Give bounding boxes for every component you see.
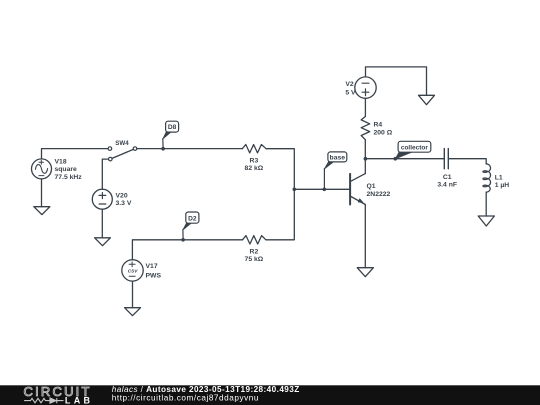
svg-text:3.3 V: 3.3 V	[116, 200, 132, 207]
wire switch lower throw to V20	[102, 159, 108, 189]
voltage source V2	[355, 77, 376, 98]
svg-text:5 V: 5 V	[345, 90, 356, 97]
svg-text:1 µH: 1 µH	[495, 182, 510, 189]
svg-text:V17: V17	[146, 263, 158, 270]
svg-text:D8: D8	[168, 124, 177, 131]
wire L1 bottom	[485, 192, 487, 216]
svg-text:square: square	[55, 166, 78, 173]
node collector flag junction	[394, 157, 398, 161]
wire Q1 collector up to R4	[364, 140, 366, 174]
wire C1 to L1	[449, 159, 486, 164]
node collector branch	[364, 157, 368, 161]
svg-text:collector: collector	[401, 144, 429, 151]
svg-text:3.4 nF: 3.4 nF	[437, 182, 457, 189]
wire V17 bottom	[132, 281, 134, 308]
node base branch	[293, 188, 297, 192]
transistor Q1	[350, 174, 365, 205]
wire collector to C1	[365, 158, 443, 160]
ground below V17	[125, 308, 141, 316]
svg-text:V18: V18	[55, 158, 67, 165]
wire V18 bottom	[41, 179, 43, 207]
voltage source V20	[92, 189, 112, 209]
ground below V18	[34, 207, 50, 215]
svg-text:LAB: LAB	[65, 395, 93, 405]
svg-text:200 Ω: 200 Ω	[374, 130, 393, 137]
svg-text:R2: R2	[250, 249, 259, 256]
svg-text:82 kΩ: 82 kΩ	[245, 165, 264, 172]
svg-text:L1: L1	[495, 175, 503, 182]
wire V2 bottom to R4	[364, 98, 366, 116]
resistor R2	[243, 236, 266, 244]
logo resistor-diode squiggle	[24, 398, 63, 403]
flag D2	[183, 212, 199, 239]
svg-text:PWS: PWS	[146, 272, 162, 279]
flag D8	[163, 121, 179, 147]
svg-text:77.5 kHz: 77.5 kHz	[55, 174, 83, 181]
wire R3 right / right vertical / R2 right	[266, 149, 294, 240]
node D8 junction	[161, 147, 165, 151]
svg-text:CSV: CSV	[128, 268, 139, 273]
svg-text:75 kΩ: 75 kΩ	[245, 256, 264, 263]
svg-text:V2: V2	[345, 81, 354, 88]
svg-text:R3: R3	[250, 158, 259, 165]
wire Q1 emitter down	[364, 205, 366, 268]
wire R2 left to V17	[132, 240, 242, 260]
node base flag junction	[323, 188, 327, 192]
switch SW4	[108, 147, 137, 161]
svg-text:base: base	[330, 154, 346, 161]
ground below L1	[478, 216, 494, 226]
svg-text:SW4: SW4	[115, 140, 129, 147]
svg-text:http://circuitlab.com/caj87dda: http://circuitlab.com/caj87ddapyvnu	[112, 393, 259, 402]
voltage source V18	[32, 159, 52, 179]
footer bar	[0, 385, 540, 405]
resistor R4	[361, 116, 370, 139]
capacitor C1	[444, 149, 448, 169]
wire V18 top to switch	[42, 149, 109, 159]
wire V20 bottom	[101, 209, 103, 238]
svg-text:Q1: Q1	[367, 183, 376, 190]
svg-text:R4: R4	[374, 122, 383, 129]
wire switch to R3	[137, 148, 243, 150]
svg-text:2N2222: 2N2222	[367, 191, 391, 198]
wire V2 top to ground	[366, 67, 427, 95]
svg-text:D2: D2	[188, 215, 197, 222]
flag base	[324, 152, 346, 188]
voltage source V17	[122, 260, 143, 281]
ground below V20	[95, 238, 111, 246]
svg-text:V20: V20	[116, 192, 128, 199]
ground right of V2	[419, 95, 435, 104]
node D2 junction	[181, 238, 185, 242]
resistor R3	[242, 145, 266, 153]
wire base	[294, 188, 349, 190]
svg-text:C1: C1	[443, 174, 452, 181]
ground below Q1 emitter	[357, 268, 373, 277]
inductor L1	[483, 164, 491, 192]
flag collector	[395, 141, 430, 159]
